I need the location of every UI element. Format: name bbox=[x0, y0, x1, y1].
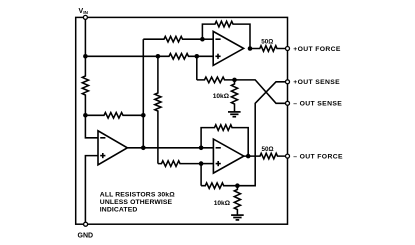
svg-text:10kΩ: 10kΩ bbox=[214, 200, 231, 207]
svg-text:50Ω: 50Ω bbox=[262, 146, 274, 153]
svg-text:GND: GND bbox=[78, 233, 94, 240]
svg-text:50Ω: 50Ω bbox=[261, 39, 273, 46]
svg-text:10kΩ: 10kΩ bbox=[213, 93, 230, 100]
svg-text:+OUT FORCE: +OUT FORCE bbox=[293, 46, 341, 53]
svg-text:UNLESS OTHERWISE: UNLESS OTHERWISE bbox=[100, 199, 173, 206]
svg-text:– OUT SENSE: – OUT SENSE bbox=[293, 101, 342, 108]
svg-text:IN: IN bbox=[83, 10, 88, 15]
svg-text:ALL RESISTORS 30kΩ: ALL RESISTORS 30kΩ bbox=[100, 191, 175, 198]
svg-text:+OUT SENSE: +OUT SENSE bbox=[293, 79, 340, 86]
svg-text:INDICATED: INDICATED bbox=[100, 206, 138, 213]
svg-text:– OUT FORCE: – OUT FORCE bbox=[293, 154, 343, 161]
